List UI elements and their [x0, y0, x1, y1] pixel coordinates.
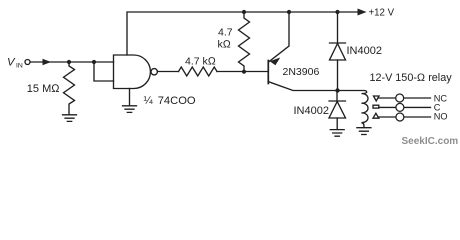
- transistor Q1 collector: [269, 82, 338, 91]
- wire gate output: [157, 71, 178, 73]
- relay contact NO arm symbol: [373, 113, 379, 118]
- ground below coil: [357, 128, 371, 135]
- svg-text:12-V 150-Ω relay: 12-V 150-Ω relay: [370, 72, 453, 84]
- node NC contact circle: [396, 94, 404, 102]
- svg-text:IN: IN: [16, 63, 23, 70]
- svg-text:SeekIC.com: SeekIC.com: [402, 136, 459, 147]
- node VIN input terminal: [25, 60, 30, 65]
- wire NC contact: [379, 97, 431, 99]
- node emitter rail junction: [287, 10, 291, 14]
- wire input tie vertical: [94, 62, 114, 81]
- svg-text:IN4002: IN4002: [347, 45, 382, 57]
- wire C contact: [379, 106, 431, 108]
- resistor R1 15 Mohm: [64, 62, 75, 115]
- relay contact NC arm symbol: [374, 96, 380, 101]
- wire NO contact: [379, 116, 431, 118]
- relay contact C arm symbol: [373, 105, 379, 108]
- op-amp U1 NAND gate 74C00 body: [114, 55, 151, 89]
- wire gate ground lead: [129, 89, 131, 106]
- diode D2 1N4002 bottom (ground clamp): [336, 91, 338, 102]
- svg-text:kΩ: kΩ: [218, 39, 231, 51]
- node R3 top rail junction: [242, 10, 246, 14]
- svg-text:15 MΩ: 15 MΩ: [27, 83, 60, 95]
- node C contact circle: [396, 103, 404, 111]
- node D1 rail junction: [335, 10, 339, 14]
- svg-text:4.7: 4.7: [218, 27, 233, 39]
- svg-text:2N3906: 2N3906: [283, 66, 320, 78]
- ground below R1: [63, 115, 77, 122]
- op-amp U1 output bubble: [151, 69, 157, 75]
- node junction R1: [67, 60, 71, 64]
- wire R2 to base node: [217, 71, 268, 73]
- diode D1 1N4002 top (collector to +12V): [337, 12, 339, 43]
- svg-text:¼74COO: ¼74COO: [144, 95, 196, 107]
- ground below D2: [330, 130, 344, 137]
- wire VIN to gate inputs: [30, 61, 113, 63]
- node collector junction: [335, 88, 339, 92]
- svg-text:4.7 kΩ: 4.7 kΩ: [185, 55, 216, 67]
- wire gate Vcc from +12V rail: [127, 12, 360, 55]
- ground below gate: [123, 106, 137, 113]
- svg-text:IN4002: IN4002: [294, 105, 329, 117]
- wire rail arrow: [358, 9, 367, 16]
- svg-text:+12 V: +12 V: [369, 7, 395, 18]
- wire input arrow: [43, 59, 52, 66]
- transistor Q1 emitter with arrow: [269, 12, 289, 62]
- node base junction: [242, 70, 246, 74]
- node junction gate input tie: [92, 60, 96, 64]
- transistor Q1 2N3906 base bar: [267, 61, 269, 84]
- relay coil L1: [338, 91, 368, 128]
- svg-text:NO: NO: [434, 112, 448, 122]
- resistor R2 4.7 kohm horizontal: [179, 67, 218, 76]
- resistor R3 4.7 kohm pull-up vertical: [239, 12, 250, 72]
- node NO contact circle: [396, 113, 404, 121]
